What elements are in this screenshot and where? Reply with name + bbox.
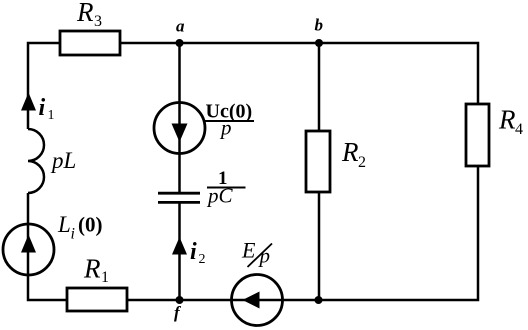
inductor pL [28,129,44,193]
svg-text:R: R [76,0,94,27]
svg-text:2: 2 [358,154,366,171]
resistor R3 [60,31,120,55]
svg-text:2: 2 [199,252,206,267]
svg-text:pL: pL [50,148,76,173]
wire R2 branch (node b down to bottom wire) [318,43,321,300]
node f [176,296,184,304]
junction node below R2 [315,296,323,304]
svg-text:L: L [57,212,71,237]
current arrow i1 [21,93,36,111]
wire middle branch lower (capacitor down to node f) [178,202,181,300]
svg-text:i: i [39,95,46,121]
node b [315,39,323,47]
capacitor 1/pC [158,192,200,195]
svg-text:1: 1 [101,269,109,286]
svg-text:p: p [258,244,271,268]
node a [176,39,184,47]
svg-text:p: p [219,116,232,140]
resistor R2 [306,131,330,192]
svg-text:3: 3 [94,13,102,30]
svg-text:(0): (0) [78,213,103,237]
source L_i(0) [3,224,54,275]
svg-text:i: i [190,239,197,265]
wire middle branch upper (node a down to capacitor) [178,43,181,193]
svg-text:1: 1 [48,108,55,123]
current arrow i2 [172,237,187,255]
svg-text:b: b [315,16,324,35]
svg-text:i: i [71,226,75,243]
svg-text:R: R [341,137,359,167]
source E/p [232,275,283,326]
wire outer loop (left, top, right, bottom) [28,43,478,300]
svg-text:a: a [176,17,185,36]
svg-text:R: R [498,105,516,135]
svg-text:4: 4 [515,121,523,138]
source Uc(0)/p [154,103,205,154]
svg-text:R: R [83,254,101,284]
svg-text:pC: pC [206,184,234,208]
resistor R4 [466,104,489,166]
resistor R1 [67,288,127,311]
svg-text:E: E [241,238,256,263]
